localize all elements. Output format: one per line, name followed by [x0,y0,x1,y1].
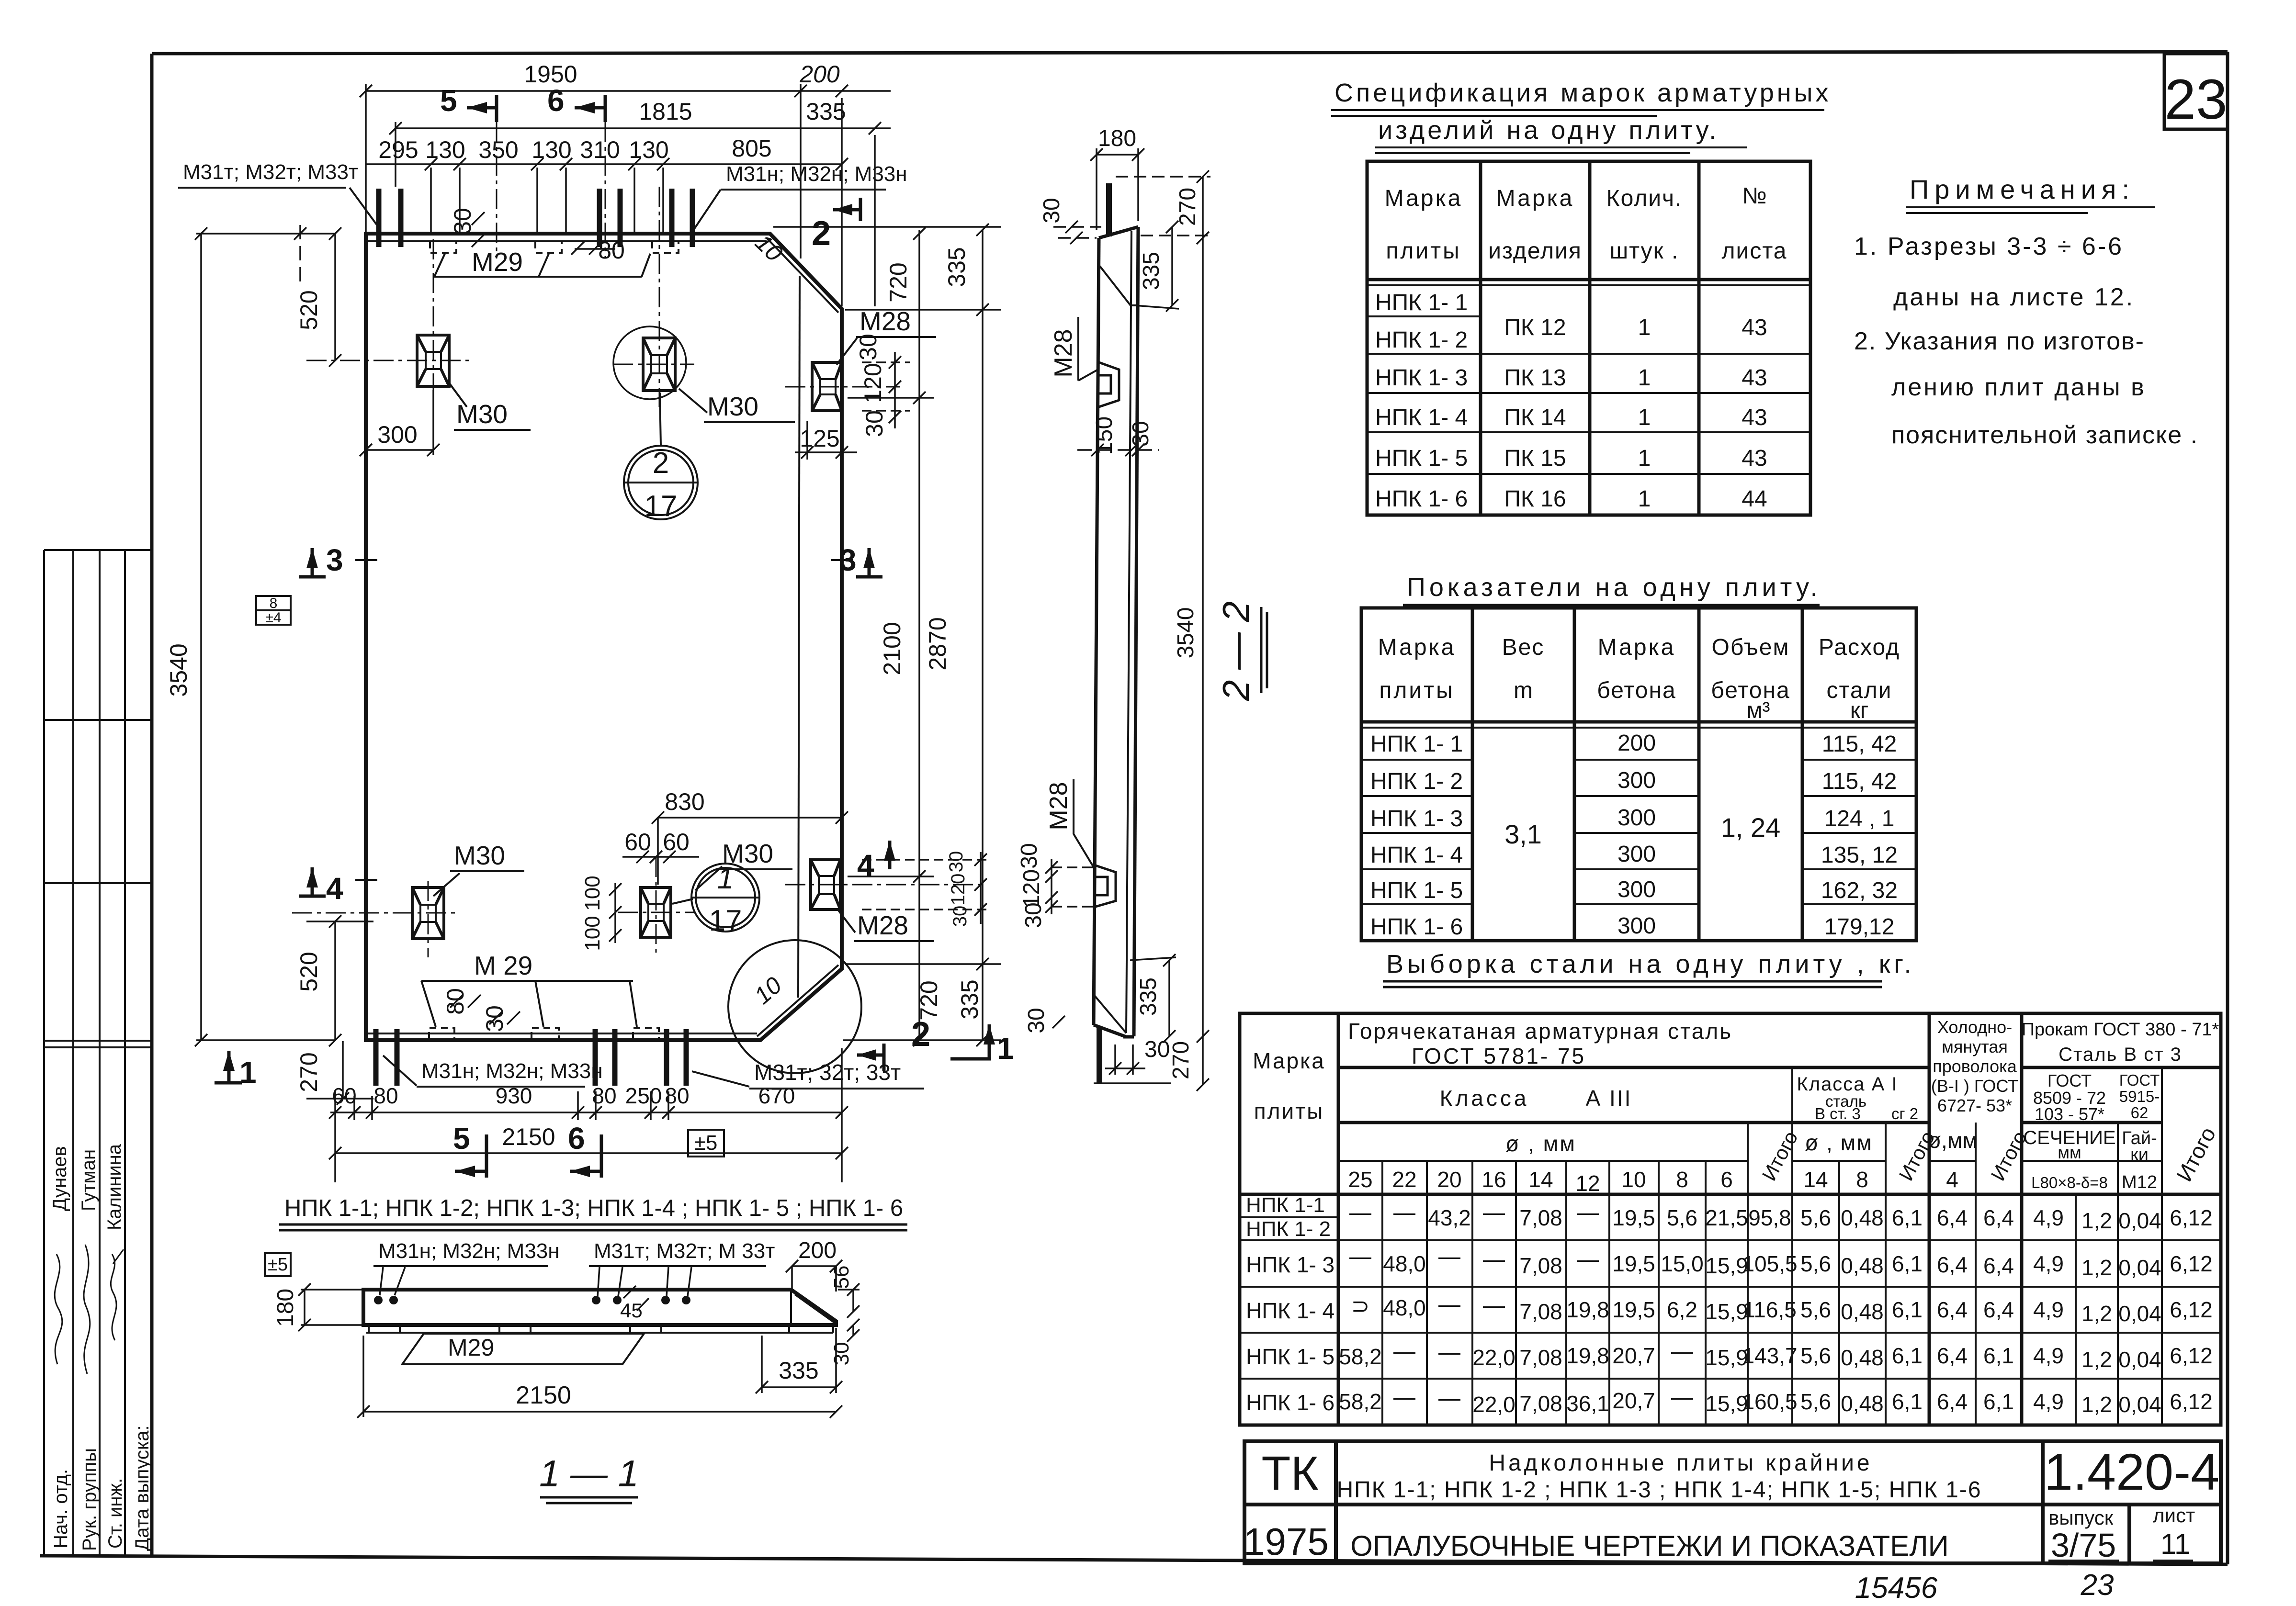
svg-text:22,0: 22,0 [1472,1345,1516,1370]
svg-text:30: 30 [1039,198,1064,223]
svg-text:М 29: М 29 [474,951,532,980]
section 2-2 M28 notch top [1099,362,1119,407]
svg-text:сг 2: сг 2 [1891,1105,1918,1123]
anchor M30 A4 [641,887,671,937]
centerline anchor B1 horizontal [785,386,900,388]
section 1-1 beam outline [363,1290,836,1325]
dim 3540/270 sec22 right line [1202,177,1204,1085]
svg-text:200: 200 [799,61,840,88]
section 2-2 bottom edge [1094,1025,1126,1037]
svg-text:1,2: 1,2 [2081,1208,2112,1233]
svg-text:0,48: 0,48 [1841,1391,1884,1416]
svg-text:350: 350 [478,136,518,163]
svg-text:162, 32: 162, 32 [1821,878,1898,903]
svg-text:НПК 1- 5: НПК 1- 5 [1246,1344,1335,1369]
svg-text:115, 42: 115, 42 [1822,731,1897,757]
svg-text:103 - 57*: 103 - 57* [2035,1104,2104,1124]
svg-text:36,1: 36,1 [1566,1391,1609,1416]
svg-text:М30: М30 [722,839,773,868]
extension 335 bottom tick mark [1052,1016,1065,1028]
svg-text:—: — [1577,1247,1599,1271]
svg-text:60: 60 [332,1083,356,1108]
section 2-2 top edge [1099,227,1138,238]
centerline anchor A2 horizontal [613,364,694,365]
svg-text:1: 1 [1638,446,1651,471]
svg-text:2100: 2100 [879,622,905,675]
dim 30 120 30 anchor B1 [894,352,896,428]
extension right top [773,226,1001,228]
svg-text:НПК 1- 6: НПК 1- 6 [1246,1390,1335,1415]
svg-text:6,4: 6,4 [1983,1253,2014,1278]
dim 300 anchor A1 [366,449,433,451]
extension right edge vertical [841,98,843,306]
svg-text:НПК 1- 4: НПК 1- 4 [1246,1298,1335,1323]
svg-text:ПК 16: ПК 16 [1504,486,1566,512]
svg-text:1.420-4: 1.420-4 [2044,1443,2219,1501]
pokazateli table frame [1361,608,1916,941]
section 2-2 bottom chamfer [1095,996,1126,1033]
extension chain ticks down [430,168,432,233]
svg-text:Дунаев: Дунаев [49,1146,70,1211]
tolerance box pm5 bottom [688,1130,724,1157]
svg-text:М31т; М32т; М 33т: М31т; М32т; М 33т [594,1239,775,1263]
svg-text:Гутман: Гутман [78,1149,99,1211]
rebar ends top pair 2 [597,189,602,247]
svg-text:670: 670 [758,1083,795,1108]
M29 dashed mark bottom 1 [429,1028,454,1039]
svg-text:43: 43 [1742,405,1767,430]
dim 830 [658,817,842,819]
rebar ends top pair 3 [669,189,675,247]
svg-text:48,0: 48,0 [1383,1295,1426,1320]
edge tick section 3 left [355,559,377,561]
svg-text:80: 80 [665,1083,689,1108]
callout circle 2/17 [624,393,698,519]
anchor M28 B2 [811,860,840,910]
svg-text:30: 30 [1024,1008,1049,1033]
svg-text:8: 8 [1856,1167,1868,1192]
centerline section 6 [605,122,606,258]
svg-text:105,5: 105,5 [1742,1251,1797,1276]
svg-text:7,08: 7,08 [1519,1299,1562,1324]
svg-text:—: — [1349,1244,1371,1269]
svg-text:19,5: 19,5 [1612,1251,1655,1276]
extension 270 top [1116,176,1210,178]
sidebar row line 3 [44,882,152,884]
svg-text:Объем: Объем [1712,635,1790,660]
centerline anchor A1 horizontal [306,360,474,361]
pokazateli header [1378,635,1900,723]
svg-text:плиты: плиты [1254,1099,1324,1123]
extension 1950 boundary [800,84,802,258]
svg-text:1 — 1: 1 — 1 [539,1452,639,1494]
svg-text:ø , мм: ø , мм [1505,1131,1576,1156]
svg-text:пояснительной записке .: пояснительной записке . [1891,421,2198,449]
plate inner rib line [798,276,800,998]
svg-text:58,2: 58,2 [1339,1389,1382,1414]
svg-text:Расход: Расход [1819,635,1900,660]
extension bottom left [334,1091,336,1182]
svg-text:6,4: 6,4 [1983,1205,2014,1230]
svg-text:19,5: 19,5 [1612,1205,1655,1230]
rebar dots sec11 [374,1296,690,1304]
svg-text:30: 30 [861,410,888,437]
svg-text:НПК 1- 6: НПК 1- 6 [1375,486,1468,512]
svg-text:5,6: 5,6 [1800,1205,1831,1230]
svg-text:5: 5 [453,1121,470,1156]
svg-text:2: 2 [911,1015,930,1054]
dim 270 bottom left [342,1041,344,1099]
svg-text:—: — [1577,1200,1599,1224]
svg-text:48,0: 48,0 [1383,1251,1426,1276]
svg-text:Холодно-: Холодно- [1937,1017,2012,1037]
svg-text:выпуск: выпуск [2048,1506,2114,1529]
svg-text:3540: 3540 [165,643,192,696]
dim line 1815/335 top [396,127,891,129]
edge tick section 3 right [831,559,853,561]
extension right chamfer end [845,309,1001,311]
svg-text:310: 310 [580,136,620,163]
dim 60 60 anchor A4 [622,856,699,858]
svg-text:130: 130 [532,136,571,163]
svg-text:4: 4 [1946,1167,1958,1192]
svg-text:270: 270 [1175,188,1200,226]
svg-text:ПК 14: ПК 14 [1504,405,1566,430]
svg-text:43: 43 [1742,446,1767,471]
svg-text:М31н; М32н; М33н: М31н; М32н; М33н [421,1059,603,1083]
svg-text:НПК 1- 6: НПК 1- 6 [1370,914,1463,940]
detail circle around A2 [613,326,686,399]
M29 dashed mark bottom 3 [633,1028,659,1039]
svg-text:30: 30 [1021,902,1046,928]
svg-text:5915-: 5915- [2119,1088,2160,1105]
svg-text:НПК 1- 5: НПК 1- 5 [1370,878,1463,903]
sidebar signature 3 dash [113,1249,124,1264]
svg-text:m: m [1514,678,1533,703]
svg-text:6,4: 6,4 [1983,1297,2014,1322]
dim 30 sec22 top left ticks [1065,221,1078,233]
edge tick section 4 left [355,879,377,881]
svg-text:2: 2 [812,214,831,253]
page border bottom [40,1556,2228,1564]
svg-text:22: 22 [1392,1167,1416,1192]
svg-text:6,1: 6,1 [1892,1251,1923,1276]
svg-text:6,4: 6,4 [1937,1389,1968,1414]
small dim 30 top [472,212,485,225]
svg-text:1: 1 [997,1031,1014,1066]
svg-text:мм: мм [2058,1143,2081,1162]
svg-text:—: — [1438,1292,1460,1316]
svg-text:20,7: 20,7 [1612,1388,1655,1413]
vyborka row lines [1240,1216,1338,1218]
svg-text:100: 100 [581,876,604,910]
svg-text:—: — [1483,1247,1505,1271]
svg-text:ПК 12: ПК 12 [1504,315,1566,340]
dim 520 bottom left [334,921,336,1040]
page border top [152,52,2228,54]
svg-text:Марка: Марка [1385,186,1463,211]
svg-text:6,4: 6,4 [1937,1297,1968,1322]
extension rebar start [395,122,396,187]
svg-text:Показатели на одну плиту.: Показатели на одну плиту. [1407,573,1821,602]
dim 720/2100/720 right inner [918,230,920,1040]
svg-text:1: 1 [1638,486,1651,512]
svg-text:6,4: 6,4 [1937,1343,1968,1368]
svg-text:1, 24: 1, 24 [1721,812,1781,842]
svg-text:№: № [1742,183,1767,209]
tolerance box pm5 sec11 [265,1253,291,1276]
svg-text:6: 6 [1720,1167,1733,1192]
rebar ends bottom pair 2 [593,1029,598,1086]
vyborka table frame [1240,1013,2221,1425]
svg-text:12: 12 [1575,1171,1600,1196]
svg-text:5,6: 5,6 [1800,1297,1831,1322]
vyborka header texts [1253,1019,1978,1156]
small dim 80 top [571,242,584,255]
svg-text:изделия: изделия [1488,238,1582,264]
svg-text:720: 720 [916,980,942,1020]
svg-text:1: 1 [1638,315,1651,340]
label M29 sec11 parallelogram [402,1334,644,1364]
vyborka ф мм band lines [1338,1160,1748,1162]
svg-text:1: 1 [1638,405,1651,430]
svg-text:Колич.: Колич. [1606,186,1683,211]
svg-text:300: 300 [1617,768,1656,793]
section 2-2 M28 notch bottom [1096,865,1116,907]
svg-text:2. Указания по изготов-: 2. Указания по изготов- [1854,327,2145,355]
svg-text:7,08: 7,08 [1519,1345,1562,1370]
svg-text:15,9: 15,9 [1705,1391,1748,1416]
svg-text:НПК 1- 2: НПК 1- 2 [1375,327,1468,353]
svg-text:8: 8 [1676,1167,1688,1192]
dim 125 anchor B1 [806,421,808,460]
svg-text:бетона: бетона [1597,678,1676,703]
svg-text:НПК 1- 4: НПК 1- 4 [1370,842,1463,868]
svg-text:43: 43 [1742,315,1767,340]
svg-text:проволока: проволока [1933,1056,2017,1076]
svg-text:1: 1 [1638,365,1651,391]
svg-text:НПК 1- 1: НПК 1- 1 [1375,290,1468,315]
vyborka sub column lines [1381,1161,1383,1425]
vyborka cold wire header [1931,1017,2018,1115]
sheet number box [2164,54,2228,129]
svg-text:520: 520 [295,290,322,330]
svg-text:М29: М29 [472,247,523,277]
svg-text:830: 830 [665,788,704,815]
pokazateli row lines col3 [1574,759,1699,761]
svg-text:НПК 1- 5: НПК 1- 5 [1375,446,1468,471]
svg-text:(В-I ) ГОСТ: (В-I ) ГОСТ [1931,1076,2018,1096]
svg-text:124 , 1: 124 , 1 [1824,806,1895,831]
svg-text:3,1: 3,1 [1504,819,1542,849]
svg-text:6,12: 6,12 [2170,1205,2213,1230]
svg-text:±4: ±4 [265,610,281,626]
svg-text:0,04: 0,04 [2118,1255,2161,1280]
svg-text:5,6: 5,6 [1800,1343,1831,1368]
svg-text:125: 125 [800,425,839,452]
svg-text:179,12: 179,12 [1824,914,1895,940]
svg-text:6,1: 6,1 [1892,1205,1923,1230]
dim 150 30 sec22 [1077,449,1159,451]
svg-text:4,9: 4,9 [2033,1251,2064,1276]
title block frame [1244,1441,2221,1563]
svg-text:335: 335 [1136,977,1161,1016]
svg-text:14: 14 [1528,1167,1553,1192]
centerline anchor A1 vertical [433,239,434,402]
dim 180 sec11 [298,1283,362,1331]
svg-text:ОПАЛУБОЧНЫЕ ЧЕРТЕЖИ И ПОКАЗ: ОПАЛУБОЧНЫЕ ЧЕРТЕЖИ И ПОКАЗАТЕЛИ [1350,1530,1949,1562]
svg-text:Надколонные плиты к: Надколонные плиты крайние [1489,1450,1872,1476]
svg-text:335: 335 [806,98,846,125]
svg-text:23: 23 [2081,1569,2114,1602]
svg-text:250: 250 [625,1083,662,1108]
svg-text:2150: 2150 [502,1123,555,1150]
dim 180 sec22 [1097,154,1138,156]
svg-text:300: 300 [377,421,417,448]
svg-text:20,7: 20,7 [1612,1343,1655,1368]
svg-text:изделий на одну плиту: изделий на одну плиту. [1378,116,1719,145]
svg-text:М30: М30 [454,841,505,870]
callout circle 1/17 [672,864,759,932]
svg-text:Рук. группы: Рук. группы [79,1448,100,1551]
svg-text:1: 1 [239,1055,257,1089]
svg-text:8: 8 [270,595,278,611]
dim 56 sec11 [838,1283,860,1318]
svg-text:Класса А I: Класса А I [1797,1074,1898,1095]
centerline anchor A4 horizontal [618,912,694,913]
sidebar signature 3 [111,1254,116,1340]
svg-text:1. Разрезы 3-3 ÷ 6-6: 1. Разрезы 3-3 ÷ 6-6 [1854,233,2124,260]
svg-text:—: — [1671,1384,1693,1409]
svg-text:805: 805 [732,135,771,162]
svg-text:НПК 1- 3: НПК 1- 3 [1370,806,1463,831]
svg-text:0,48: 0,48 [1841,1345,1884,1370]
svg-text:ПК 13: ПК 13 [1504,365,1566,391]
pokazateli data [1370,730,1898,940]
svg-text:5,6: 5,6 [1800,1251,1831,1276]
dim 2150 bottom [335,1152,842,1154]
svg-text:0,04: 0,04 [2118,1392,2161,1417]
svg-text:—: — [1349,1200,1371,1224]
svg-text:14: 14 [1803,1167,1828,1192]
svg-text:0,48: 0,48 [1841,1253,1884,1278]
svg-text:200: 200 [798,1238,837,1263]
svg-text:4,9: 4,9 [2033,1343,2064,1368]
beam bottom lip [366,1332,833,1334]
dim 30 120 30 anchor B2 [980,852,982,924]
dim 335 sec22 bottom [1168,960,1170,1036]
svg-text:листа: листа [1722,238,1787,264]
svg-text:—: — [1393,1338,1415,1363]
svg-text:43: 43 [1742,365,1767,391]
anchor M30 A1 [417,335,449,386]
spec table frame [1367,161,1810,515]
dim 520 top left [334,234,336,360]
svg-text:15456: 15456 [1855,1572,1938,1605]
dim line 1950/200 top [366,90,891,92]
svg-text:6,1: 6,1 [1983,1389,2014,1414]
svg-text:30: 30 [1144,1037,1170,1062]
svg-text:60: 60 [624,829,651,855]
svg-text:плиты: плиты [1386,238,1461,264]
svg-text:56: 56 [830,1266,853,1289]
svg-text:6,12: 6,12 [2170,1251,2213,1276]
dim 335 sec22 top [1171,227,1173,305]
svg-text:М31н; М32н; М33н: М31н; М32н; М33н [726,162,907,186]
svg-text:М31т; 32т; 33т: М31т; 32т; 33т [754,1060,901,1085]
svg-text:335: 335 [779,1357,818,1384]
svg-text:Марка: Марка [1598,635,1676,660]
svg-text:5,6: 5,6 [1667,1205,1697,1230]
section 2-2 left edge [1094,238,1099,1025]
svg-text:335: 335 [1139,252,1164,290]
tolerance box 8/4 [256,596,291,625]
centerline anchor A4 vertical [656,857,657,957]
dim 335 sec11 [756,1328,842,1393]
sidebar row line top [44,549,152,551]
section 2-2 rebar bottom [1097,1027,1102,1083]
dim chain bottom 60-80-930-80-250-80-670 [330,1112,842,1113]
extension right 1831 [848,876,934,877]
svg-text:300: 300 [1617,913,1656,939]
svg-text:120: 120 [948,874,969,906]
svg-text:80: 80 [592,1083,616,1108]
svg-text:6,1: 6,1 [1892,1297,1923,1322]
svg-text:НПК 1- 2: НПК 1- 2 [1246,1217,1331,1241]
svg-text:—: — [1393,1384,1415,1409]
svg-text:180: 180 [1098,126,1136,151]
svg-text:135, 12: 135, 12 [1821,842,1898,868]
svg-text:6,1: 6,1 [1892,1389,1923,1414]
svg-text:НПК 1- 4: НПК 1- 4 [1375,405,1468,430]
svg-text:11: 11 [2160,1528,2190,1560]
svg-text:НПК 1-1; НПК 1-2 ; НПК 1-3: НПК 1-1; НПК 1-2 ; НПК 1-3 ; НПК 1-4; НП… [1336,1477,1981,1503]
svg-text:НПК 1-1: НПК 1-1 [1246,1193,1325,1217]
svg-text:7,08: 7,08 [1519,1205,1562,1230]
svg-text:160,5: 160,5 [1742,1389,1797,1414]
extension right 720 [848,397,934,399]
svg-text:60: 60 [663,829,690,855]
svg-text:ø , мм: ø , мм [1805,1130,1873,1155]
dim 2150 sec11 [357,1336,842,1418]
svg-text:Класса: Класса [1440,1086,1529,1111]
svg-text:6727- 53*: 6727- 53* [1937,1096,2012,1115]
svg-text:Вес: Вес [1502,635,1545,660]
svg-text:22,0: 22,0 [1472,1392,1516,1417]
svg-text:Спецификация марок армату: Спецификация марок арматурных [1335,79,1831,107]
svg-text:6: 6 [547,83,565,118]
svg-text:58,2: 58,2 [1339,1344,1382,1369]
svg-text:4,9: 4,9 [2033,1297,2064,1322]
svg-text:300: 300 [1617,842,1656,867]
svg-text:120: 120 [1019,869,1044,908]
svg-text:30: 30 [1128,421,1154,446]
svg-text:НПК 1- 3: НПК 1- 3 [1246,1252,1335,1277]
sidebar row line 2 [44,719,152,721]
svg-text:2: 2 [653,447,669,480]
svg-text:ПК 15: ПК 15 [1504,446,1566,471]
svg-text:23: 23 [2164,68,2227,131]
sidebar signature 2 [84,1245,90,1374]
svg-text:0,48: 0,48 [1841,1299,1884,1324]
svg-text:120: 120 [860,363,886,403]
svg-text:лист: лист [2153,1504,2195,1527]
rebar ends bottom pair 3 [664,1029,669,1086]
svg-text:1,2: 1,2 [2081,1301,2112,1326]
svg-text:2150: 2150 [516,1381,571,1409]
centerline anchor B2 horizontal [785,884,986,886]
svg-text:20: 20 [1437,1167,1461,1192]
